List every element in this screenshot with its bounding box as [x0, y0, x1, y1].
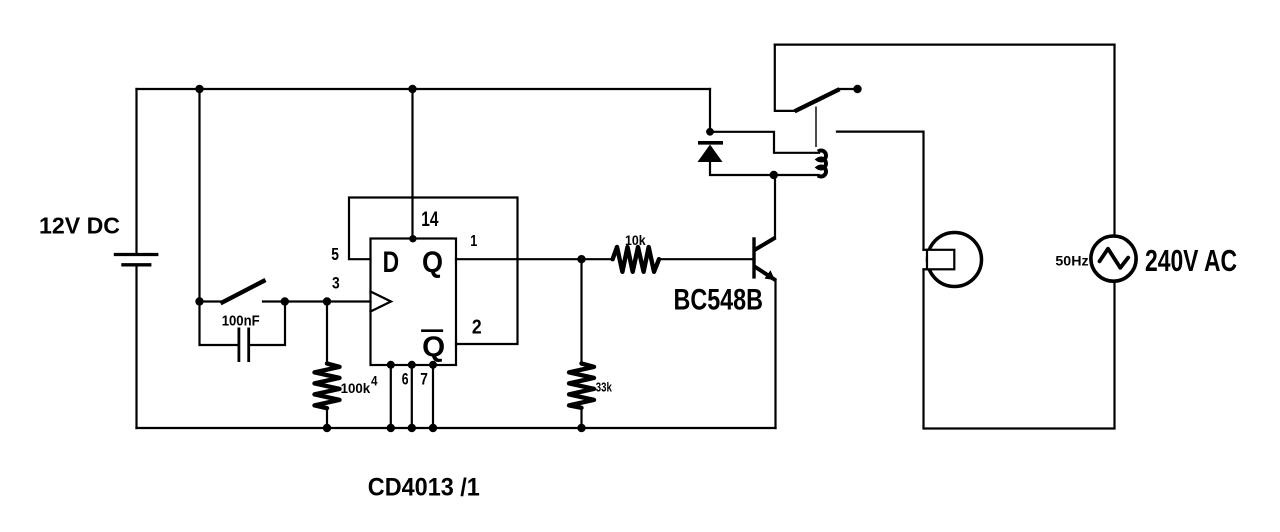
node pin6 ground: [408, 424, 416, 432]
wire 33k top lead: [580, 259, 582, 364]
node pin4 ground: [387, 424, 395, 432]
node pin14 at box: [409, 235, 416, 242]
wire coil bottom to node: [710, 162, 819, 175]
svg-text:14: 14: [421, 207, 438, 231]
wire switch left stub: [200, 300, 221, 302]
node pin14 top junction: [408, 85, 416, 93]
wire relay top loop: [775, 43, 1115, 45]
resistor R2 33k zigzag: [569, 364, 594, 408]
node 100k ground: [323, 424, 331, 432]
svg-text:5: 5: [331, 244, 339, 264]
relay K1 coil: [818, 151, 826, 177]
wire lamp top stub: [924, 249, 928, 251]
svg-text:Q: Q: [422, 246, 443, 279]
node pin7 at box: [429, 361, 437, 369]
node switch contact: [281, 297, 289, 305]
svg-text:50Hz: 50Hz: [1055, 254, 1088, 269]
transistor Q1 BC548B: [754, 237, 776, 280]
relay K1 armature link: [815, 107, 817, 148]
node relay contact tip: [853, 85, 861, 93]
wire diode to coil top: [710, 132, 819, 153]
wire pin 6 drop: [411, 365, 413, 428]
clock input triangle pin 3: [371, 292, 392, 312]
wire 100k bottom lead: [326, 408, 328, 428]
wire 10k right lead to base: [659, 258, 753, 260]
svg-text:100k: 100k: [341, 380, 371, 396]
battery B1 12V plates: [114, 255, 159, 265]
wire 100k top lead: [326, 302, 328, 365]
svg-text:CD4013 /1: CD4013 /1: [368, 473, 480, 501]
wire pin 14 drop: [411, 89, 413, 239]
svg-text:12V DC: 12V DC: [39, 213, 120, 239]
node pin6 at box: [408, 361, 416, 369]
svg-text:4: 4: [371, 373, 378, 389]
svg-text:1: 1: [470, 233, 477, 250]
svg-text:BC548B: BC548B: [674, 285, 764, 317]
node top-left junction: [195, 85, 203, 93]
svg-text:6: 6: [402, 370, 409, 388]
wire switch right to clock node: [263, 300, 371, 302]
node 33k ground: [577, 424, 585, 432]
svg-text:7: 7: [420, 370, 428, 388]
node clock: [323, 297, 331, 305]
lamp L1: [927, 233, 982, 287]
wire collector up: [774, 175, 776, 238]
svg-text:100nF: 100nF: [222, 313, 260, 329]
wire emitter down: [774, 281, 776, 429]
node switch pivot: [195, 297, 203, 305]
svg-text:10k: 10k: [625, 233, 646, 248]
wire 33k bottom lead: [580, 408, 582, 429]
label Q-bar overline: [421, 329, 443, 332]
wire lamp bottom stub: [924, 268, 928, 270]
node pin4 at box: [387, 361, 395, 369]
wire Q-bar to D feedback loop: [349, 198, 518, 345]
wire Q output pin 1: [456, 258, 582, 260]
node diode top: [706, 128, 714, 136]
wire battery negative drop: [135, 265, 137, 428]
wire top main bus: [137, 88, 711, 90]
svg-text:240V AC: 240V AC: [1145, 244, 1237, 278]
resistor R3 10k zigzag: [613, 247, 659, 272]
svg-text:3: 3: [332, 273, 340, 292]
wire lamp bottom loop: [924, 269, 1115, 428]
wire switch S1 drop: [198, 89, 200, 302]
svg-text:33k: 33k: [596, 380, 612, 394]
capacitor C1 plates: [239, 328, 249, 363]
wire relay arm tip stub: [839, 88, 854, 90]
node coil bottom: [770, 171, 778, 179]
svg-text:2: 2: [472, 317, 482, 339]
diode D1: [698, 143, 724, 162]
wire relay COM drop: [775, 45, 795, 111]
wire 10k left lead: [582, 258, 613, 260]
svg-text:Q: Q: [422, 332, 445, 364]
node pin7 ground: [429, 424, 437, 432]
wire capacitor right lead: [251, 302, 285, 346]
wire relay NO output: [837, 132, 924, 250]
node Q output: [577, 255, 585, 263]
svg-text:D: D: [383, 246, 400, 279]
switch S1 arm: [221, 280, 266, 303]
relay K1 switch arm: [795, 89, 840, 111]
wire AC right drop upper: [1113, 45, 1115, 237]
AC source V1 240V: [1091, 236, 1136, 281]
wire pin 4 drop: [390, 365, 392, 428]
wire bottom ground bus: [137, 427, 776, 429]
wire capacitor left lead: [200, 302, 237, 346]
flip-flop U1 CD4013 box: [371, 239, 457, 366]
wire battery positive drop: [135, 89, 137, 254]
wire pin 7 drop: [432, 365, 434, 428]
wire diode top drop: [709, 89, 711, 132]
resistor R1 100k zigzag: [315, 364, 340, 409]
